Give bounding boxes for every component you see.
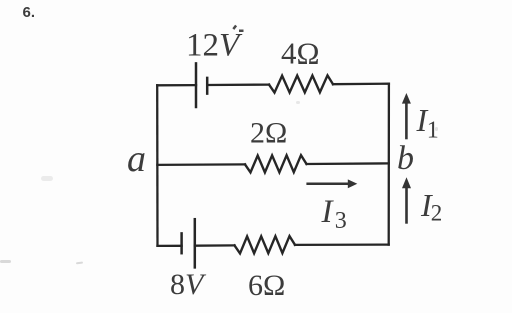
resistor R2 2ohm zigzag: [245, 155, 307, 172]
wire middle segment node a to R2: [157, 163, 245, 166]
svg-text:I: I: [321, 194, 335, 230]
wire right vertical rail: [388, 84, 390, 245]
svg-text:8V: 8V: [170, 268, 207, 301]
svg-text:3: 3: [335, 208, 347, 234]
svg-text:2Ω: 2Ω: [250, 117, 287, 150]
svg-text:6Ω: 6Ω: [248, 269, 285, 302]
wire bottom-left segment to battery V2: [158, 245, 182, 247]
svg-text:2: 2: [431, 200, 443, 225]
svg-text:a: a: [127, 138, 146, 180]
resistor R1 4ohm zigzag: [269, 75, 333, 92]
wire battery V1 to resistor R1: [207, 83, 269, 86]
wire battery V2 to resistor R3: [195, 244, 235, 247]
current arrow I2: [402, 177, 411, 223]
battery V1 12V short plate: [206, 78, 209, 94]
wire R2 to node b: [307, 162, 389, 165]
svg-text:6.: 6.: [23, 4, 36, 21]
current arrow I1: [402, 93, 411, 139]
battery V2 8V short plate: [180, 233, 183, 253]
scan speck above 12V: [232, 25, 243, 32]
faint scan smudges: [0, 101, 438, 264]
wire R3 to bottom-right corner: [295, 243, 389, 246]
wire R1 to top-right corner: [333, 83, 389, 86]
wire top-left segment to battery V1: [157, 84, 196, 87]
svg-text:12V: 12V: [186, 28, 243, 64]
battery V1 12V long plate: [195, 63, 198, 107]
battery V2 8V long plate: [194, 219, 197, 267]
wire left vertical rail: [156, 85, 159, 246]
current arrow I3: [306, 179, 357, 188]
resistor R3 6ohm zigzag: [235, 236, 296, 253]
svg-text:b: b: [397, 140, 414, 177]
svg-text:4Ω: 4Ω: [281, 35, 320, 70]
